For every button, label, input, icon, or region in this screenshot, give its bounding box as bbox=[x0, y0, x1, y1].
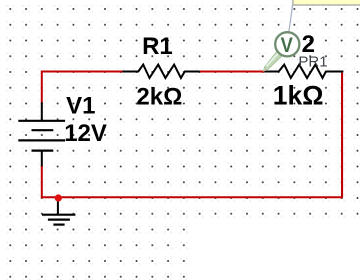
svg-text:R1: R1 bbox=[142, 33, 173, 60]
resistor R2 body bbox=[265, 65, 344, 78]
ground bar 1 bbox=[42, 214, 75, 216]
wire: battery top to R1 (red, with corner) bbox=[42, 72, 123, 104]
probe readout box (yellow, clipped at top edge) bbox=[293, 0, 360, 5]
wire: R2 right down the right side bbox=[341, 73, 343, 197]
ground bar 2 bbox=[48, 219, 70, 221]
svg-text:12V: 12V bbox=[64, 120, 107, 147]
probe needle highlight bbox=[266, 51, 281, 67]
probe circle with V bbox=[275, 32, 299, 56]
wire: bottom run and left riser to battery bbox=[42, 166, 343, 197]
svg-text:V1: V1 bbox=[66, 93, 95, 120]
battery V1 plate short 2 bbox=[32, 150, 54, 152]
probe leader line to readout box bbox=[289, 6, 293, 32]
battery V1 bottom pin bbox=[41, 151, 43, 167]
battery V1 plate long 1 bbox=[18, 120, 65, 122]
svg-text:PR1: PR1 bbox=[298, 53, 327, 70]
node: junction of bottom wire and ground bbox=[55, 194, 62, 201]
svg-text:1kΩ: 1kΩ bbox=[273, 81, 324, 111]
resistor R1 body bbox=[122, 65, 199, 78]
battery V1 plate short 1 bbox=[32, 129, 54, 131]
battery V1 top pin bbox=[41, 103, 43, 121]
svg-text:2kΩ: 2kΩ bbox=[136, 84, 182, 111]
svg-text:V: V bbox=[281, 33, 294, 57]
wire: R1 right to R2 left bbox=[200, 71, 265, 73]
probe needle tip bbox=[263, 68, 267, 72]
ground stem bbox=[57, 197, 59, 214]
battery V1 plate long 2 bbox=[18, 139, 65, 141]
ground bar 3 bbox=[53, 224, 64, 226]
probe PR1 needle shaft bbox=[263, 50, 283, 71]
